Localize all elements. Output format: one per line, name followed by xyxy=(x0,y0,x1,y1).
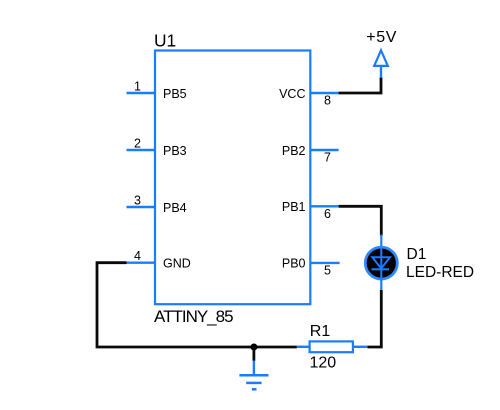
IC U1 body xyxy=(155,51,310,305)
svg-text:6: 6 xyxy=(324,207,331,221)
pin 8 VCC xyxy=(279,87,339,108)
svg-text:4: 4 xyxy=(134,249,141,263)
svg-text:PB5: PB5 xyxy=(163,87,187,101)
svg-text:120: 120 xyxy=(310,355,337,372)
svg-text:R1: R1 xyxy=(310,323,331,340)
pin 7 PB2 xyxy=(282,144,339,165)
svg-text:3: 3 xyxy=(134,194,141,208)
label R1 xyxy=(310,323,331,340)
svg-text:D1: D1 xyxy=(407,246,427,263)
wire GND pin4 to bottom rail and R1 left xyxy=(97,263,297,347)
svg-text:PB2: PB2 xyxy=(282,144,306,158)
svg-text:VCC: VCC xyxy=(279,87,305,101)
wire PB1 pin6 to D1 anode xyxy=(339,206,382,235)
svg-text:PB1: PB1 xyxy=(282,200,306,214)
label U1 xyxy=(154,31,176,51)
svg-text:7: 7 xyxy=(324,151,331,165)
svg-text:LED-RED: LED-RED xyxy=(406,264,474,281)
label D1 xyxy=(407,246,427,263)
svg-text:PB4: PB4 xyxy=(163,201,187,215)
power +5V symbol xyxy=(374,50,388,78)
pin 2 PB3 xyxy=(127,137,187,158)
pin 4 GND xyxy=(127,249,191,270)
svg-text:8: 8 xyxy=(324,94,331,108)
pin 6 PB1 xyxy=(282,200,339,221)
label LED-RED xyxy=(406,264,474,281)
pin 3 PB4 xyxy=(127,194,187,215)
svg-text:PB0: PB0 xyxy=(282,257,306,271)
svg-text:1: 1 xyxy=(134,80,141,94)
svg-text:U1: U1 xyxy=(154,31,176,51)
wire junction to ground xyxy=(252,347,255,361)
label 120 xyxy=(310,355,337,372)
junction node at ground tap xyxy=(250,344,257,351)
wire VCC pin8 to +5V xyxy=(339,78,381,94)
label ATTINY_85 xyxy=(154,307,233,326)
ground symbol xyxy=(239,361,268,390)
svg-text:PB3: PB3 xyxy=(163,144,187,158)
svg-text:GND: GND xyxy=(163,257,191,271)
LED D1 xyxy=(365,235,397,291)
svg-text:ATTINY_85: ATTINY_85 xyxy=(154,307,233,326)
wire D1 cathode to R1 right xyxy=(367,290,381,347)
label +5V xyxy=(366,29,397,46)
svg-text:2: 2 xyxy=(134,137,141,151)
resistor R1 xyxy=(297,341,368,352)
svg-text:+5V: +5V xyxy=(366,29,397,46)
pin 5 PB0 xyxy=(282,257,340,278)
svg-text:5: 5 xyxy=(324,263,331,277)
pin 1 PB5 xyxy=(127,80,187,101)
